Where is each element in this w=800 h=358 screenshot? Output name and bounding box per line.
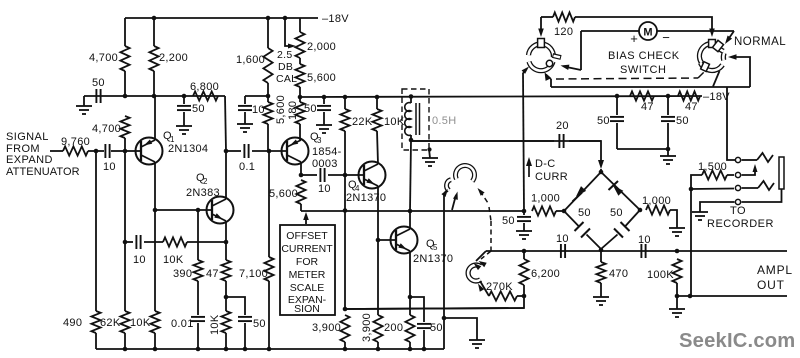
- diode D2 on top-right edge: [613, 186, 623, 196]
- switch S1b right tick: [721, 53, 727, 60]
- resistor R 3,900 second: [373, 315, 382, 342]
- svg-text:50: 50: [192, 103, 205, 115]
- switch S1b upper-right band: [716, 44, 723, 51]
- wire 2200 column top: [153, 18, 155, 46]
- node junction rail/50-617: [615, 94, 620, 99]
- wire 10Kh to Q2 emitter node: [187, 241, 226, 243]
- wire top rail -18V left section: [125, 17, 318, 19]
- svg-text:10: 10: [103, 161, 116, 173]
- node junction Q2 collector/0.1: [224, 149, 229, 154]
- capacitor C 10 output-right: [640, 244, 642, 258]
- wire Q1 emitter down: [154, 162, 156, 210]
- wire 50-617 top lead: [616, 96, 618, 115]
- node junction rail/22K: [343, 95, 348, 100]
- arrowhead current into bridge: [598, 160, 604, 169]
- node bridge bottom corner: [599, 248, 604, 253]
- svg-text:3,900: 3,900: [312, 322, 341, 334]
- node Q2 emitter junction: [224, 240, 229, 245]
- wire Q5 collector up: [409, 211, 411, 229]
- wire 180 to Q3 collector: [299, 124, 301, 140]
- wire Q1 collector up: [154, 96, 156, 140]
- wire 390 to 0.01: [197, 281, 199, 315]
- wire meter left drop: [580, 31, 582, 70]
- wire 3900b top: [377, 240, 379, 315]
- svg-text:10: 10: [318, 183, 331, 195]
- diode bridge edge bottom-right: [625, 210, 640, 227]
- resistor R 10K (Q4 collector): [372, 109, 381, 131]
- switch S1a right tick: [553, 56, 562, 58]
- svg-text:1,500: 1,500: [698, 161, 727, 173]
- svg-text:3: 3: [317, 136, 322, 145]
- switch wafer contact big arc: [456, 166, 475, 182]
- node junction rail/inductor: [409, 94, 414, 99]
- svg-text:120: 120: [554, 26, 573, 38]
- wire arm to left switch contact: [523, 69, 526, 73]
- switch S1b stem normal: [712, 40, 723, 51]
- ground filters: [660, 155, 676, 157]
- svg-text:2N1304: 2N1304: [168, 143, 208, 155]
- node Q5 emitter junction: [408, 295, 413, 300]
- capacitor C 50 (detector): [517, 216, 531, 218]
- wire 1600 to 5600: [267, 83, 269, 102]
- resistor R 180: [295, 102, 304, 124]
- svg-text:CAL: CAL: [276, 73, 297, 85]
- capacitor C 50 (Q5 emitter): [417, 323, 431, 325]
- dashed gang link to wafer: [489, 207, 491, 221]
- capacitor C 50 (filter 1): [610, 116, 624, 118]
- svg-text:2N1370: 2N1370: [413, 253, 453, 265]
- wire right bus riser: [443, 210, 445, 349]
- switch wafer contact small arc: [447, 180, 451, 191]
- transistor Q1 2N1304: [136, 138, 163, 165]
- node bus/62K: [123, 347, 128, 352]
- wire cap10 to base node: [111, 150, 125, 152]
- wire jack2 arm: [742, 168, 756, 175]
- svg-text:OFFSET: OFFSET: [286, 230, 328, 242]
- wire contact arm vertical: [443, 194, 445, 210]
- svg-text:−: −: [662, 30, 670, 45]
- node bus/50cap: [243, 347, 248, 352]
- arrowhead jack arm up: [753, 164, 758, 172]
- wire 4700 bottom to node: [124, 71, 126, 96]
- svg-text:SCALE: SCALE: [290, 282, 324, 294]
- wire strap diagonal: [713, 71, 720, 87]
- wire 50-524 stub: [523, 211, 525, 215]
- wire bottom bus: [96, 348, 444, 350]
- wire 50cap-TL ground drop: [83, 96, 85, 106]
- svg-text:TO: TO: [730, 205, 746, 217]
- svg-text:200: 200: [384, 322, 403, 334]
- capacitor C 50 (under 6800 node): [183, 96, 185, 104]
- svg-text:50: 50: [502, 215, 515, 227]
- wire 4700 top column: [124, 18, 126, 46]
- arrowhead dashed gang lower: [479, 261, 487, 267]
- wire 120 rail: [540, 17, 542, 31]
- svg-text:2,000: 2,000: [307, 41, 336, 53]
- arrowhead into left switch top: [538, 29, 544, 38]
- jack sleeve bar: [779, 157, 784, 189]
- svg-text:50: 50: [92, 77, 105, 89]
- svg-text:50: 50: [304, 103, 317, 115]
- wire 1000R to ground: [670, 210, 677, 228]
- wire sleeve to jack4: [742, 189, 782, 202]
- wire 7100 to bus: [268, 281, 270, 349]
- resistor R 9,760: [63, 146, 88, 155]
- capacitor C 50 (filter 2): [661, 116, 675, 118]
- switch S1b stem bottom-left: [701, 62, 710, 72]
- svg-text:FOR: FOR: [296, 256, 319, 268]
- resistor R 10K vertical-mid: [221, 311, 230, 333]
- resistor R 100K: [672, 259, 681, 283]
- resistor R 10K horizontal: [163, 237, 187, 246]
- wire 10cap stub: [245, 95, 268, 97]
- svg-text:NORMAL: NORMAL: [734, 36, 786, 48]
- capacitor C 10 (Q3-Q4 coupling): [319, 168, 321, 182]
- wire to 62K: [124, 242, 126, 311]
- resistor R 5,600 (below 1600): [263, 102, 272, 124]
- node bus/3900b: [376, 347, 381, 352]
- arrowhead into right switch normal: [725, 36, 732, 45]
- node junction 3900a top: [343, 307, 348, 312]
- wire contact arm diagonal: [452, 195, 456, 210]
- wire jack4 to ground: [700, 202, 735, 212]
- svg-text:ATTENUATOR: ATTENUATOR: [6, 166, 80, 178]
- node bridge top corner: [599, 170, 604, 175]
- svg-text:0.1: 0.1: [239, 161, 255, 173]
- jack contact circle 1: [735, 157, 740, 162]
- wire 10K2 to bus: [225, 333, 227, 349]
- wire output line y251: [486, 250, 787, 252]
- node junction 1600col/10cap stub: [266, 94, 271, 99]
- arrowhead into right switch top: [709, 29, 715, 38]
- wire 0.1 lead left: [226, 150, 241, 152]
- wire 22K column to 3900 node: [344, 211, 346, 309]
- wire inductor wire to bridge top: [411, 140, 601, 142]
- resistor R 200: [405, 315, 414, 342]
- wire 1500 left corner: [691, 175, 702, 189]
- transistor Q2 2N383: [207, 197, 234, 224]
- wire 5600 bottom to base node: [267, 124, 269, 151]
- transistor Q3 1854-0003: [282, 138, 309, 165]
- node junction 1500/jack3: [689, 187, 694, 192]
- resistor R 270K: [489, 291, 517, 300]
- svg-text:10K: 10K: [209, 314, 221, 335]
- svg-text:2.5: 2.5: [277, 49, 293, 61]
- dashed gang vertical: [490, 221, 492, 251]
- capacitor C 50 bridge-left: [575, 222, 584, 231]
- wire pot column top stub: [299, 18, 301, 32]
- svg-text:5,600: 5,600: [269, 188, 298, 200]
- svg-text:62K: 62K: [100, 317, 121, 329]
- wire 490 to bus: [95, 333, 97, 349]
- svg-text:6,800: 6,800: [190, 81, 219, 93]
- resistor R 4,700 upper: [120, 46, 129, 71]
- switch S1a lower band: [529, 62, 553, 71]
- wire 6800 right drop: [225, 96, 226, 151]
- wire 100K bottom: [676, 283, 678, 296]
- svg-text:47: 47: [206, 268, 219, 280]
- node junction rail/50-668: [666, 94, 671, 99]
- wire bias switch long vertical: [523, 73, 524, 211]
- wire shield ground stub: [429, 149, 430, 158]
- wire 6200 to bus corner: [345, 296, 524, 309]
- ground under 10-245: [237, 123, 253, 125]
- svg-text:SIGNAL: SIGNAL: [6, 131, 49, 143]
- resistor R 62K: [120, 311, 129, 333]
- svg-text:10K: 10K: [130, 317, 151, 329]
- svg-text:2N383: 2N383: [186, 187, 220, 199]
- node junction wire211/22K column: [343, 208, 348, 213]
- wire 200 to bus: [409, 342, 411, 349]
- wire from bottom contact: [546, 75, 551, 80]
- wire 50 to bus: [244, 323, 246, 349]
- svg-text:0.01: 0.01: [171, 318, 194, 330]
- wire 270K from wafer: [480, 281, 489, 296]
- resistor R 120: [553, 12, 575, 21]
- resistor R 1,500: [702, 170, 727, 179]
- wire filter ground stub: [667, 149, 669, 156]
- wire 10cap-245 to gnd: [244, 112, 246, 124]
- arrowhead contact arm 2: [453, 192, 458, 200]
- node junction 6800-left/50cap: [182, 94, 187, 99]
- node junction 270K/6200: [522, 294, 527, 299]
- wire cap10b lead: [125, 241, 133, 243]
- svg-text:5,600: 5,600: [275, 95, 287, 124]
- ground under 470: [593, 296, 609, 298]
- capacitor C 10 output-left: [560, 244, 562, 258]
- wire 9760 to node: [88, 150, 96, 152]
- svg-text:10: 10: [556, 233, 569, 245]
- wire base node to Q1: [125, 150, 141, 152]
- capacitor C 50 top-left: [95, 89, 97, 103]
- svg-text:6,200: 6,200: [531, 268, 560, 280]
- ground under 1000 right: [669, 227, 685, 229]
- wire node to Q3 base: [269, 150, 287, 152]
- diode D1 on top-left edge: [576, 186, 586, 196]
- arrowhead into right switch side: [728, 54, 737, 60]
- wire 22K node down to wire211: [344, 175, 346, 211]
- svg-text:OUT: OUT: [757, 278, 785, 292]
- wire 1500 to jack2: [727, 174, 734, 176]
- wire 47 column top: [225, 242, 227, 260]
- wire rail to 22K: [344, 97, 346, 109]
- resistor R 7,100: [264, 257, 273, 281]
- node junction rail/50cap-324: [322, 95, 327, 100]
- wire 50-617 bottom: [616, 123, 618, 149]
- node junction 50 cap branch: [224, 295, 229, 300]
- node bus/10K2: [224, 347, 229, 352]
- capacitor C 10 (feedback row): [135, 235, 137, 249]
- wire strap right loop: [736, 57, 750, 87]
- resistor R 1,000 left: [532, 206, 556, 215]
- svg-text:2: 2: [203, 177, 208, 186]
- wire jack3 line: [691, 188, 734, 191]
- wire 20cap to bridge drop: [569, 141, 601, 166]
- wire filter bottoms join: [617, 148, 668, 150]
- inductor L 0.5H coil: [405, 103, 411, 136]
- transistor Q5 2N1370: [391, 227, 418, 254]
- node Q3 emitter junction: [299, 173, 304, 178]
- node junction 390 column: [196, 208, 201, 213]
- resistor R 6,200: [519, 259, 528, 285]
- svg-text:5,600: 5,600: [307, 72, 336, 84]
- shield dashed box around inductor: [402, 89, 429, 150]
- wire rail node to 180: [299, 97, 301, 102]
- diode bridge edge bottom-left: [564, 211, 579, 227]
- capacitor C 10 (coupling bypass): [238, 105, 252, 107]
- wire arrow stub to bridge: [600, 169, 602, 172]
- switch S1a stem top: [538, 39, 545, 48]
- arrowhead into 270K wafer top: [474, 263, 482, 270]
- svg-text:50: 50: [253, 318, 266, 330]
- wire output return y296: [677, 295, 787, 297]
- wire 5600b to rail node: [299, 87, 301, 97]
- jack contact circle 2: [735, 172, 740, 177]
- ground under detector 50: [516, 230, 532, 232]
- wire 10Kc to Q4 collector: [377, 131, 378, 164]
- ground mid-bottom: [469, 339, 485, 341]
- node junction filter ground: [666, 147, 671, 152]
- wire 470 ground drop: [600, 283, 602, 297]
- wire inductor bottom lead: [410, 135, 412, 141]
- switch S1b stem top: [709, 40, 716, 48]
- wire Q4 emitter down: [377, 186, 379, 240]
- node junction wire211/Q5 collector: [408, 209, 413, 214]
- wire 2200 bottom: [153, 71, 155, 96]
- arrow offset box to wire: [305, 216, 307, 224]
- svg-text:1,600: 1,600: [236, 54, 265, 66]
- resistor R 47 (Q2 emitter): [221, 260, 230, 281]
- resistor R 3,900 first: [340, 315, 349, 342]
- wire 22K down to Q4 base node: [344, 131, 346, 175]
- resistor R 10K vertical-left: [150, 311, 159, 333]
- node junction 100K bottom: [675, 294, 680, 299]
- wire base column down: [124, 151, 126, 242]
- arrowhead into 270K wafer bottom: [478, 284, 484, 292]
- svg-text:390: 390: [173, 268, 192, 280]
- resistor R 5,600 (pot column): [295, 64, 304, 87]
- capacitor C 20: [558, 134, 560, 148]
- wire jack3 spring: [742, 187, 759, 189]
- svg-text:7,100: 7,100: [239, 268, 268, 280]
- ground recorder: [692, 211, 708, 213]
- svg-text:CURR: CURR: [535, 171, 568, 183]
- wire 470 top: [600, 250, 602, 262]
- wire strap line y87: [551, 86, 750, 88]
- svg-text:270K: 270K: [486, 281, 513, 293]
- resistor R 470: [596, 262, 605, 283]
- wire 200 top: [409, 297, 411, 315]
- svg-text:9,760: 9,760: [61, 136, 90, 148]
- wire input node down: [95, 151, 97, 311]
- jack contact circle 4: [735, 199, 740, 204]
- resistor R 1,600: [263, 48, 272, 83]
- wire left bias line y96: [84, 95, 225, 97]
- wire input lead: [50, 150, 63, 152]
- svg-text:–18V: –18V: [322, 13, 349, 25]
- wire 3900a to bus: [344, 342, 346, 349]
- wire 0.1 to node: [252, 150, 269, 152]
- resistor R 390: [193, 260, 202, 281]
- node bus/3900a: [343, 347, 348, 352]
- wire 5600 to offset wire: [300, 204, 302, 211]
- svg-text:47: 47: [641, 101, 654, 113]
- ground under 50-324: [316, 124, 332, 126]
- node junction rail/10K: [375, 95, 380, 100]
- resistor R 2,200: [149, 46, 158, 71]
- wiper wire for pot: [285, 18, 292, 46]
- arrowhead into left switch meter contact: [561, 65, 570, 70]
- svg-text:3,900: 3,900: [361, 313, 373, 342]
- dashed gang wire main: [556, 78, 698, 79]
- wire emitter to cap10c: [301, 174, 317, 176]
- node junction return/691: [688, 294, 693, 299]
- transistor Q4 2N1370: [359, 162, 386, 189]
- node junction 10cap row: [123, 240, 128, 245]
- capacitor C 0.1: [243, 144, 245, 158]
- wire Q5 emitter down: [409, 251, 411, 297]
- capacitor C 50 (Q2 bypass): [238, 316, 252, 318]
- svg-text:470: 470: [609, 268, 628, 280]
- svg-text:2,200: 2,200: [159, 52, 188, 64]
- annotation box OFFSET CURRENT: [280, 225, 335, 315]
- node junction rail/1600: [266, 16, 271, 21]
- switch S1b lower band: [701, 63, 723, 71]
- node junction 22K/Q4 base: [343, 173, 348, 178]
- node junction 100K top: [675, 249, 680, 254]
- svg-text:10: 10: [638, 234, 651, 246]
- svg-text:1,000: 1,000: [642, 195, 671, 207]
- svg-text:50: 50: [610, 207, 623, 219]
- diode bridge edge top-right: [601, 172, 640, 210]
- node junction 6200 top: [522, 249, 527, 254]
- svg-text:–18V: –18V: [703, 91, 730, 103]
- node bridge left corner: [562, 209, 567, 214]
- svg-text:AMPL: AMPL: [757, 263, 793, 277]
- wire ground branch 318: [444, 318, 477, 340]
- svg-text:BIAS CHECK: BIAS CHECK: [608, 50, 680, 62]
- wire 50-324 to gnd: [323, 112, 325, 125]
- svg-text:SION: SION: [294, 303, 320, 315]
- svg-text:50: 50: [597, 115, 610, 127]
- ground for shield: [422, 157, 438, 159]
- wire 0.01 to bus: [197, 323, 199, 349]
- node junction 2200/Q1 collector: [152, 94, 157, 99]
- svg-text:RECORDER: RECORDER: [707, 218, 774, 230]
- svg-text:5: 5: [433, 243, 438, 252]
- svg-text:SeekIC.com: SeekIC.com: [679, 330, 795, 352]
- resistor R 1,000 right: [646, 205, 670, 214]
- resistor R 490: [91, 311, 100, 333]
- node junction 444/318: [442, 316, 447, 321]
- arrowhead contact arm 1: [441, 189, 448, 197]
- svg-text:50: 50: [430, 322, 443, 334]
- capacitor C 50 bridge-right: [621, 222, 630, 231]
- wire 270K to 6200 node: [517, 295, 524, 297]
- wire Q3 emitter down: [300, 162, 302, 175]
- wire meter to normal diagonal: [657, 30, 734, 32]
- svg-text:DB: DB: [278, 61, 293, 73]
- jack contact circle 3: [735, 185, 740, 190]
- wire 100K ground drop: [676, 296, 678, 309]
- wire 3900b to bus: [377, 342, 379, 349]
- svg-text:50: 50: [578, 207, 591, 219]
- wire 50-668 top lead: [667, 96, 669, 115]
- node junction rail/pot wiper: [283, 16, 288, 21]
- svg-text:2N1370: 2N1370: [346, 192, 386, 204]
- wire 6200 top lead: [523, 251, 525, 259]
- node bridge right corner: [638, 208, 643, 213]
